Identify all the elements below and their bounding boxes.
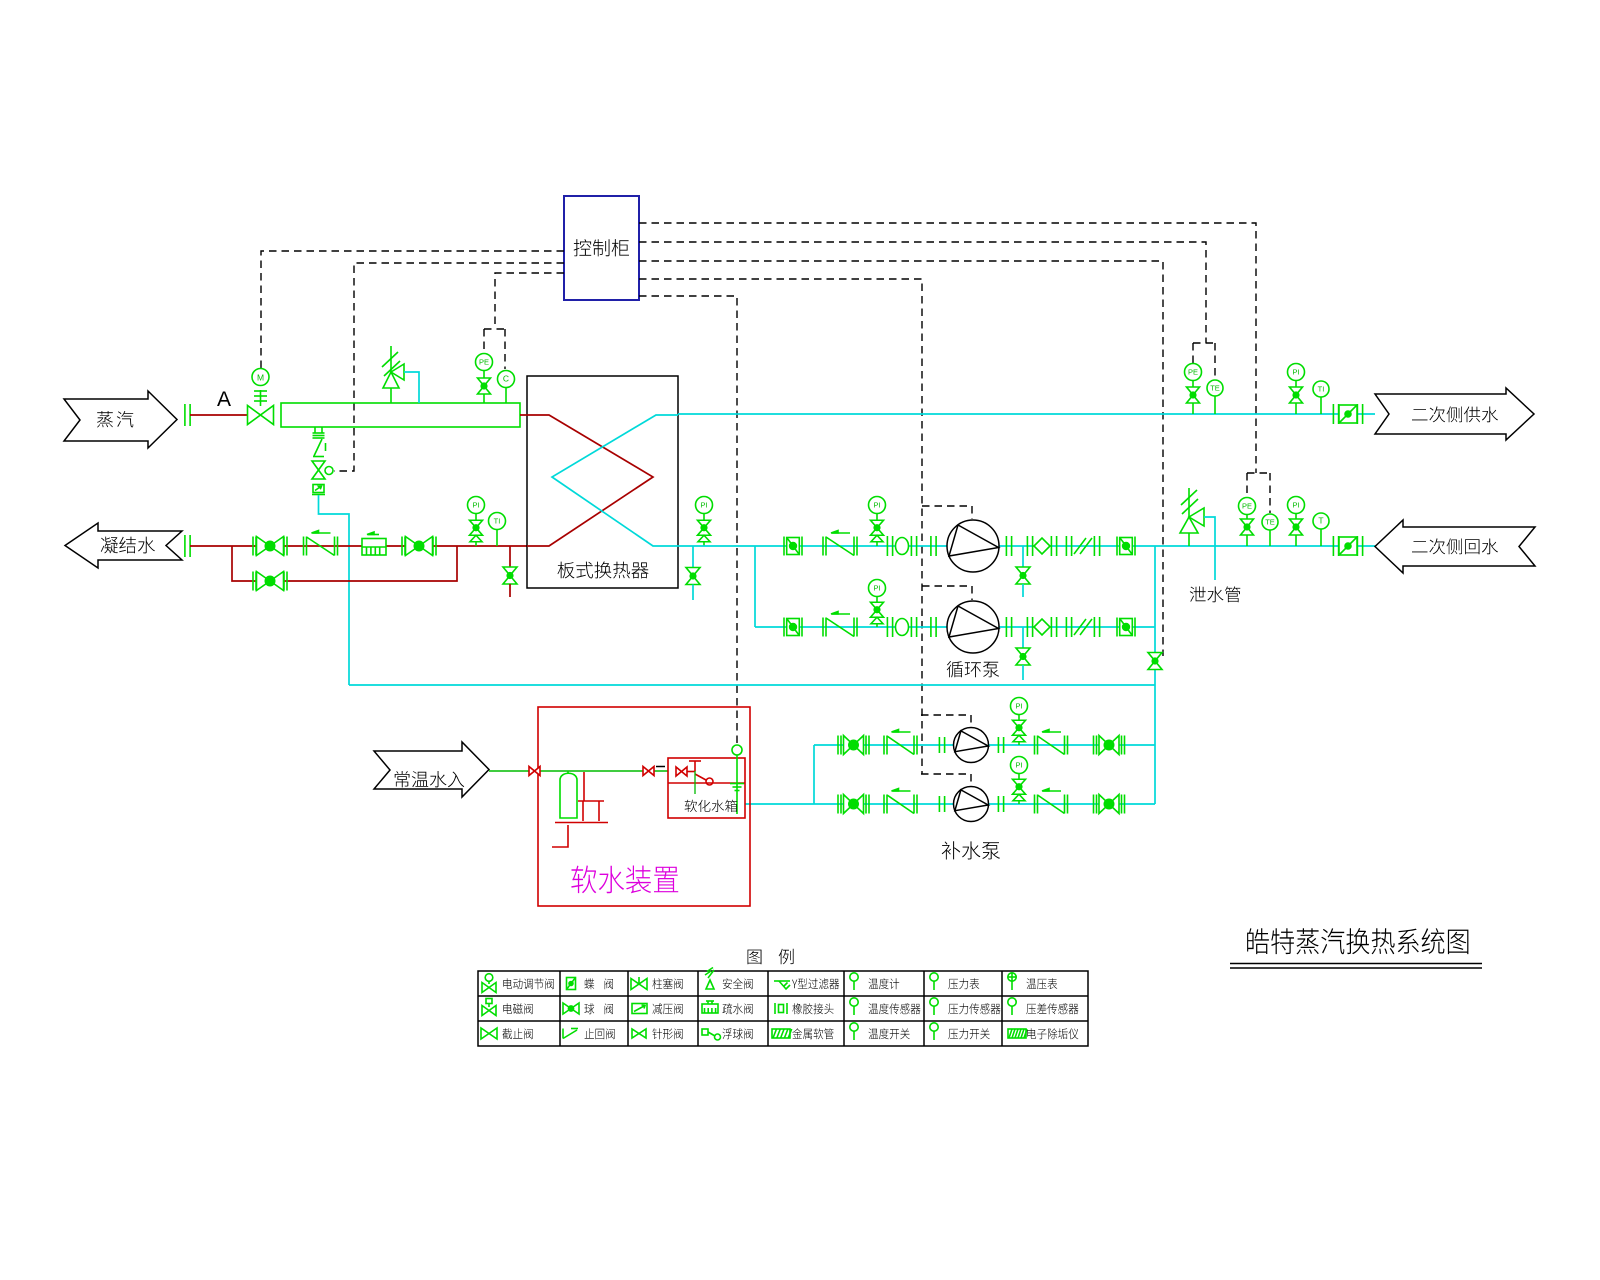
secondary return pipe: [678, 545, 1375, 547]
steam header pipe: [281, 403, 520, 427]
drawing title 皓特蒸汽换热系统图: [1230, 928, 1482, 968]
legend: steam trap 疏水阀: [702, 1001, 718, 1013]
control line to circulation and make-up pumps: [639, 279, 972, 786]
return T gauge: [1313, 513, 1329, 546]
plate heat exchanger 板式换热器: [527, 376, 678, 588]
make-up pump header pipe: [813, 745, 815, 804]
condensate pipe: [190, 545, 527, 547]
make-up 1 ball valve 2: [1094, 736, 1125, 755]
secondary supply pipe: [678, 413, 1375, 415]
make-up 2 ball valve 1: [838, 795, 869, 814]
legend: ball valve 球阀: [563, 1003, 579, 1014]
legend: pressure gauge 压力表: [930, 973, 938, 990]
svg-text:PI: PI: [700, 501, 707, 510]
bypass ball valve: [253, 572, 287, 591]
make-up pump row 2 pipe: [814, 803, 1155, 805]
svg-text:TI: TI: [494, 517, 501, 526]
riser pipe to make-up header: [1154, 546, 1156, 804]
tank level switch: [730, 745, 744, 814]
legend title 图例: [748, 949, 794, 965]
condensate outlet arrow 凝结水: [65, 523, 182, 568]
relief discharge to drain pipe: [1204, 517, 1215, 580]
svg-text:TE: TE: [1265, 518, 1275, 527]
softener unit enclosure 软水装置: [538, 707, 750, 906]
steam header PE sensor: [476, 354, 493, 404]
legend: solenoid valve 电磁阀: [482, 999, 496, 1016]
svg-text:C: C: [503, 374, 509, 384]
legend: pressure reducing valve 减压阀: [632, 1004, 647, 1014]
svg-text:M: M: [257, 373, 264, 383]
steam inlet arrow 蒸汽: [64, 391, 177, 448]
circulation pump 1: [947, 520, 999, 572]
condensate flange: [185, 535, 190, 557]
svg-text:TE: TE: [1210, 384, 1220, 393]
legend table grid: [478, 971, 1088, 1046]
make-up 1 PI gauge: [1011, 698, 1028, 746]
control cabinet 控制柜: [564, 196, 639, 300]
softener drain leg: [552, 825, 568, 847]
legend: check valve 止回阀: [563, 1029, 578, 1039]
hose tick: [656, 766, 665, 768]
make-up 1 check valve 2: [1035, 730, 1068, 755]
svg-text:PI: PI: [1292, 368, 1299, 377]
heat exchanger label: [558, 562, 649, 579]
inlet valve 2: [643, 767, 654, 776]
control line to softened water tank level switch: [639, 296, 737, 744]
return PE sensor: [1239, 498, 1256, 547]
legend: Y-strainer Y型过滤器: [774, 981, 790, 989]
svg-text:PE: PE: [479, 358, 489, 367]
raw water pipe: [489, 770, 668, 772]
control line to steam header PE/C sensors: [484, 273, 564, 369]
pump row branch pipe: [754, 546, 756, 627]
circulation row 2 pipe: [755, 626, 1155, 628]
circ pump 2 flex joint: [1027, 617, 1056, 637]
legend: metal hose 金属软管: [772, 1029, 792, 1038]
return TE sensor: [1262, 514, 1278, 546]
make-up 2 check valve 2: [1035, 789, 1068, 814]
svg-text:TI: TI: [1318, 385, 1325, 394]
control line to motor valve M: [261, 251, 564, 368]
supply PE sensor: [1185, 364, 1202, 415]
supply TI gauge: [1313, 381, 1329, 414]
circ pump 2 drain valve: [1016, 627, 1030, 680]
condensate bypass pipe: [232, 546, 457, 581]
circ pump 2 PI gauge: [869, 580, 886, 628]
svg-text:PI: PI: [873, 501, 880, 510]
circulation pump 2: [947, 601, 999, 653]
heat exchanger outlet drain valve: [686, 546, 700, 600]
legend: electronic descaler 电子除垢仪: [1008, 1029, 1027, 1038]
svg-text:PI: PI: [1015, 761, 1022, 770]
supply flow element: [1333, 404, 1362, 424]
steam inlet flange: [185, 404, 190, 426]
riser drain valve: [1148, 653, 1162, 670]
legend: needle valve 针形阀: [632, 1029, 646, 1038]
make-up 1 discharge flange: [998, 737, 1003, 753]
legend: safety valve 安全阀: [705, 968, 714, 990]
make-up 2 ball valve 2: [1094, 795, 1125, 814]
circ pump 1 butterfly valve: [784, 537, 802, 556]
heat exchanger secondary (cyan) circuit: [552, 415, 678, 546]
motorized steam valve M: [248, 369, 274, 425]
make-up water pipe from softener: [349, 684, 1155, 686]
secondary return arrow 二次侧回水: [1375, 520, 1535, 573]
legend: globe valve 截止阀: [481, 1028, 497, 1039]
softener label 软水装置 (magenta): [571, 866, 678, 894]
control line to condensate trap solenoid valve: [334, 263, 564, 471]
legend: float valve 浮球阀: [702, 1029, 721, 1040]
legend: pressure sensor 压力传感器: [930, 998, 938, 1015]
circ pump 1 flex joint: [1027, 536, 1056, 556]
circ pump 1 rubber joint: [887, 536, 916, 556]
svg-text:PI: PI: [1015, 702, 1022, 711]
circ pump 2 metal hose: [1066, 617, 1099, 637]
softener base skid: [555, 822, 608, 824]
return relief valve: [1180, 488, 1204, 546]
heat exchanger outlet PI gauge: [696, 497, 713, 547]
svg-text:PE: PE: [1242, 502, 1252, 511]
condensate ball valve 2: [402, 537, 436, 556]
circulation pumps label 循环泵: [947, 661, 999, 677]
make-up pump row 1 pipe: [814, 744, 1155, 746]
raw water inlet arrow 常温水入: [374, 742, 489, 797]
inlet valve 1: [529, 767, 540, 776]
make-up 2 PI gauge: [1011, 757, 1028, 805]
tank inlet pipework: [687, 761, 713, 785]
svg-text:T: T: [1318, 516, 1323, 526]
control line to drain valve near riser: [639, 261, 1163, 656]
heat exchanger primary (red) circuit: [520, 415, 653, 546]
circ pump 1 butterfly valve 2: [1117, 537, 1135, 556]
svg-text:PE: PE: [1188, 368, 1198, 377]
tank outlet pipe: [745, 803, 814, 805]
condensate steam trap: [362, 532, 386, 555]
circ pump 1 drain valve: [1016, 546, 1030, 597]
svg-text:PI: PI: [472, 501, 479, 510]
circ pump 2 check valve: [823, 612, 857, 637]
make-up 2 suction flange: [939, 796, 944, 812]
legend: pressure switch 压力开关: [930, 1023, 938, 1040]
svg-text:PI: PI: [873, 584, 880, 593]
secondary supply arrow 二次侧供水: [1375, 388, 1534, 440]
condensate drain valve: [503, 546, 517, 597]
control line to supply-line PE/TE sensors: [639, 242, 1215, 379]
circ pump 1 discharge flange: [1006, 536, 1011, 556]
make-up 2 check valve 1: [884, 789, 917, 814]
tank inlet valve: [676, 767, 687, 776]
steam trap (Z symbol): [313, 439, 326, 457]
make-up pumps label 补水泵: [942, 841, 1000, 859]
legend: temperature switch 温度开关: [850, 1023, 858, 1040]
circ pump 2 butterfly valve: [784, 618, 802, 637]
softener stand: [578, 801, 604, 821]
softener tank feed pipe: [583, 772, 585, 801]
sight glass square: [312, 485, 325, 495]
legend: thermometer 温度计: [850, 973, 858, 990]
return flow element: [1333, 536, 1362, 556]
legend: diff pressure sensor 压差传感器: [1008, 998, 1016, 1015]
circ pump 1 check valve: [823, 531, 857, 556]
legend: temperature sensor 温度传感器: [850, 998, 858, 1015]
legend: butterfly valve 蝶阀: [567, 978, 576, 990]
supply TE sensor: [1207, 380, 1223, 414]
condensate check valve: [304, 531, 338, 556]
circ pump 2 suction flange: [931, 617, 936, 637]
trap drain pipe to make-up line: [319, 495, 350, 685]
circ pump 2 discharge flange: [1006, 617, 1011, 637]
drain pipe label 泄水管: [1190, 586, 1241, 602]
condensate PI gauge: [468, 497, 485, 547]
control line to return-line PE/TE sensors: [639, 223, 1270, 513]
circ pump 2 butterfly valve 2: [1117, 618, 1135, 637]
trap drain flange: [313, 427, 325, 438]
svg-text:A: A: [217, 388, 231, 411]
legend: plunger valve 柱塞阀: [631, 977, 647, 990]
circ pump 1 metal hose: [1066, 536, 1099, 556]
make-up 1 check valve 1: [884, 730, 917, 755]
supply PI gauge: [1288, 364, 1305, 415]
safety valve discharge pipe: [404, 372, 419, 403]
legend: temp-pressure gauge 温压表: [1008, 973, 1016, 990]
make-up pump 1: [954, 728, 989, 763]
softened water tank 软化水箱: [668, 758, 745, 818]
condensate TI gauge: [489, 513, 506, 547]
steam header C sensor: [498, 371, 515, 404]
make-up pump 2: [954, 787, 989, 822]
legend: motor control valve 电动调节阀: [482, 974, 496, 993]
softener resin tank: [560, 771, 577, 818]
steam pipe: [190, 414, 248, 416]
make-up 1 ball valve 1: [838, 736, 869, 755]
tank label 软化水箱: [685, 800, 738, 812]
return PI gauge: [1288, 497, 1305, 547]
svg-text:PI: PI: [1292, 501, 1299, 510]
condensate ball valve 1: [253, 537, 287, 556]
circ pump 1 PI gauge: [869, 497, 886, 547]
safety valve on steam header: [382, 346, 404, 403]
make-up 2 discharge flange: [998, 796, 1003, 812]
circ pump 1 suction flange: [931, 536, 936, 556]
solenoid drain valve: [312, 461, 333, 479]
make-up 1 suction flange: [939, 737, 944, 753]
circ pump 2 rubber joint: [887, 617, 916, 637]
legend: rubber joint 橡胶接头: [775, 1003, 787, 1014]
tank inlet drop pipe: [694, 771, 696, 794]
